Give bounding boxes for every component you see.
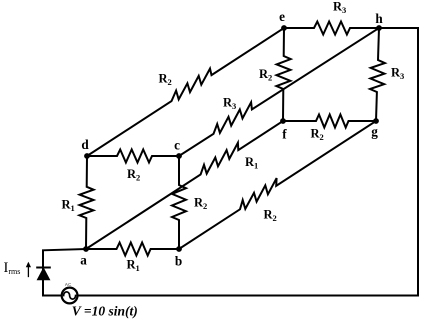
current arrow up [26, 262, 31, 277]
svg-text:R2: R2 [127, 167, 140, 183]
svg-text:f: f [282, 127, 287, 142]
svg-text:R2: R2 [194, 196, 207, 212]
junction node g [373, 118, 379, 124]
ac source V1 [62, 288, 78, 304]
svg-text:R2: R2 [264, 208, 277, 224]
resistor R1 (a-b) [86, 243, 179, 256]
junction node c [176, 153, 182, 159]
junction node e [281, 25, 287, 31]
svg-text:V =10 sin(t): V =10 sin(t) [72, 304, 138, 319]
svg-text:R1: R1 [245, 155, 258, 171]
resistor R2 (c-b) [172, 156, 186, 249]
svg-text:R3: R3 [223, 96, 236, 112]
svg-text:e: e [279, 9, 285, 24]
svg-text:R1: R1 [62, 198, 75, 214]
wire right edge to node h [379, 27, 418, 29]
svg-text:c: c [174, 137, 180, 152]
junction node b [176, 246, 182, 252]
junction node h [376, 25, 382, 31]
svg-text:R3: R3 [333, 0, 346, 15]
junction node f [280, 118, 286, 124]
wire source to bottom-right corner [78, 295, 418, 297]
wire right edge up [417, 28, 419, 296]
svg-text:R2: R2 [311, 127, 324, 143]
svg-text:R2: R2 [259, 67, 272, 83]
wire left corner to source [43, 295, 62, 297]
junction node a [83, 246, 89, 252]
svg-text:a: a [80, 253, 87, 268]
svg-text:AC: AC [65, 282, 72, 287]
resistor R2 (d-e) [87, 28, 284, 156]
junction node d [84, 153, 90, 159]
diode D1 [37, 268, 50, 280]
svg-text:R1: R1 [127, 258, 140, 274]
resistor R3 (e-h) [284, 22, 379, 35]
svg-text:h: h [375, 11, 383, 26]
svg-text:Irms: Irms [4, 260, 21, 276]
resistor R3 (h-g) [370, 28, 385, 121]
svg-text:g: g [371, 124, 378, 139]
wire node a to left corner [43, 249, 86, 296]
resistor R2 (e-f) [276, 28, 290, 121]
resistor R2 (f-g) [283, 115, 376, 128]
resistor R3 (c-h) [179, 28, 379, 156]
resistor R2 (d-c) [87, 150, 179, 163]
svg-text:R3: R3 [391, 66, 404, 82]
svg-text:R2: R2 [159, 72, 172, 88]
resistor R2 (b-g) [179, 121, 376, 249]
svg-text:b: b [175, 253, 182, 268]
resistor R1 (a-f) [86, 121, 283, 249]
svg-text:d: d [81, 137, 89, 152]
resistor R1 (d-a) [79, 156, 93, 249]
